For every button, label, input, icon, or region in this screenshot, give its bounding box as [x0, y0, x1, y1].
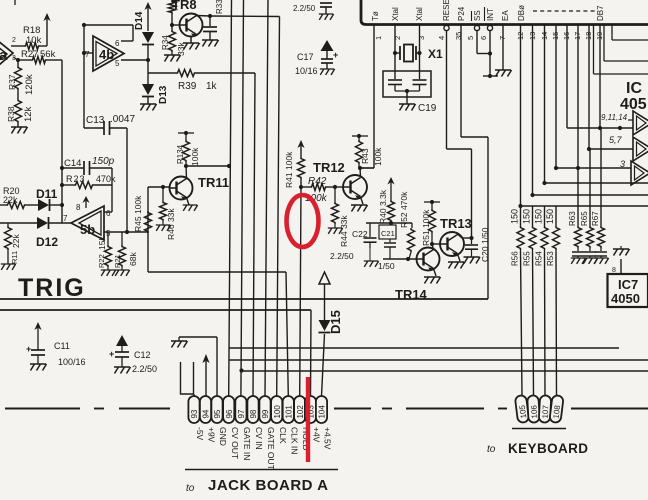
svg-text:C14: C14: [64, 158, 81, 169]
svg-text:97: 97: [237, 409, 246, 418]
svg-text:108: 108: [552, 404, 563, 419]
svg-text:.0047: .0047: [110, 114, 135, 125]
svg-text:DBø: DBø: [517, 5, 526, 21]
svg-text:C19: C19: [418, 103, 437, 114]
svg-text:6: 6: [479, 36, 488, 40]
svg-text:R56: R56: [511, 251, 520, 266]
svg-text:C21: C21: [381, 229, 395, 238]
svg-text:TR12: TR12: [313, 160, 345, 175]
svg-text:R51 100k: R51 100k: [421, 209, 431, 246]
svg-text:R45 100k: R45 100k: [133, 195, 143, 232]
svg-text:R55: R55: [523, 251, 532, 266]
svg-text:R39: R39: [178, 81, 197, 92]
svg-text:98: 98: [249, 409, 258, 418]
svg-text:150: 150: [522, 209, 532, 224]
svg-text:R53: R53: [546, 251, 555, 266]
svg-text:100k: 100k: [373, 147, 383, 166]
svg-text:C22: C22: [352, 229, 368, 239]
svg-text:102: 102: [296, 405, 305, 419]
svg-text:C20 1/50: C20 1/50: [480, 227, 490, 262]
svg-text:56k: 56k: [40, 49, 56, 60]
svg-text:D11: D11: [36, 187, 58, 201]
svg-text:7: 7: [63, 214, 68, 223]
svg-text:+4V: +4V: [312, 427, 322, 443]
svg-text:+9V: +9V: [207, 427, 217, 443]
svg-text:10/16: 10/16: [295, 66, 318, 76]
svg-text:2.2/50: 2.2/50: [132, 364, 157, 374]
svg-text:Xtal: Xtal: [391, 7, 400, 21]
svg-text:R52 470k: R52 470k: [399, 191, 409, 228]
svg-text:R42: R42: [308, 176, 327, 187]
svg-text:D14: D14: [134, 11, 145, 30]
svg-text:CLK: CLK: [278, 427, 288, 444]
svg-text:C17: C17: [297, 52, 314, 62]
svg-text:R11: R11: [10, 251, 19, 264]
svg-text:R67: R67: [591, 211, 600, 226]
svg-text:+4.5V: +4.5V: [323, 427, 333, 450]
svg-text:GND: GND: [218, 427, 228, 446]
svg-text:+: +: [109, 349, 114, 359]
svg-text:Xtal: Xtal: [415, 7, 424, 21]
svg-text:5: 5: [115, 59, 120, 68]
svg-text:1k: 1k: [206, 81, 218, 92]
svg-text:104: 104: [318, 405, 327, 419]
svg-text:4b: 4b: [99, 47, 114, 62]
svg-text:106: 106: [529, 404, 539, 418]
svg-text:-5V: -5V: [195, 427, 205, 441]
svg-text:5b: 5b: [80, 222, 95, 237]
svg-text:C11: C11: [54, 341, 70, 351]
svg-text:KEYBOARD: KEYBOARD: [508, 441, 588, 456]
svg-text:D12: D12: [36, 235, 58, 249]
svg-text:1/50: 1/50: [378, 261, 395, 271]
svg-text:100k: 100k: [190, 147, 200, 166]
svg-text:R22: R22: [97, 254, 106, 268]
svg-text:C12: C12: [134, 350, 151, 360]
svg-text:CV IN: CV IN: [254, 427, 264, 450]
svg-text:GATE OUT: GATE OUT: [266, 427, 276, 470]
svg-text:6: 6: [106, 209, 111, 218]
svg-text:22k: 22k: [11, 234, 21, 248]
svg-text:R21: R21: [113, 254, 122, 268]
svg-text:470k: 470k: [96, 174, 116, 184]
svg-text:100/16: 100/16: [58, 357, 86, 367]
svg-text:R44 33k: R44 33k: [339, 215, 349, 247]
svg-text:D15: D15: [328, 310, 343, 334]
svg-text:150p: 150p: [92, 156, 115, 167]
svg-text:R34: R34: [161, 35, 170, 50]
svg-text:150: 150: [510, 209, 520, 224]
svg-text:100: 100: [273, 405, 282, 419]
svg-text:R37: R37: [7, 74, 17, 90]
svg-text:12k: 12k: [23, 106, 34, 122]
svg-text:TR11: TR11: [198, 175, 229, 190]
svg-text:JACK BOARD A: JACK BOARD A: [208, 477, 328, 494]
svg-text:95: 95: [213, 409, 222, 418]
svg-text:8: 8: [76, 203, 81, 212]
svg-text:120k: 120k: [24, 74, 35, 95]
svg-text:8: 8: [612, 267, 616, 274]
svg-text:2.2/50: 2.2/50: [293, 4, 316, 13]
svg-text:105: 105: [518, 404, 529, 419]
svg-text:TRIG: TRIG: [18, 274, 86, 302]
svg-text:R134: R134: [176, 144, 185, 164]
svg-text:4: 4: [437, 36, 446, 40]
svg-text:2: 2: [12, 37, 16, 44]
svg-text:P24: P24: [457, 6, 466, 21]
svg-text:22k: 22k: [3, 195, 18, 205]
svg-text:10k: 10k: [26, 35, 42, 46]
svg-text:2.2/50: 2.2/50: [330, 251, 354, 261]
svg-text:99: 99: [261, 409, 270, 418]
svg-text:GATE IN: GATE IN: [242, 427, 252, 460]
svg-text:R40 3.3k: R40 3.3k: [378, 189, 388, 224]
svg-text:93: 93: [190, 409, 199, 418]
svg-text:15k: 15k: [97, 236, 107, 250]
svg-text:94: 94: [202, 409, 211, 418]
svg-text:5,7: 5,7: [609, 135, 623, 145]
svg-text:EA: EA: [501, 10, 510, 21]
svg-text:5: 5: [466, 36, 475, 40]
svg-text:150: 150: [545, 209, 555, 224]
svg-text:+: +: [26, 344, 31, 354]
svg-text:R33: R33: [215, 0, 224, 14]
svg-text:1: 1: [374, 36, 383, 40]
svg-text:7: 7: [85, 50, 90, 59]
svg-text:SS: SS: [473, 10, 482, 21]
svg-text:96: 96: [225, 409, 234, 418]
svg-text:INT: INT: [486, 8, 495, 21]
svg-text:9,11,14: 9,11,14: [601, 113, 628, 122]
svg-text:DB7: DB7: [596, 5, 605, 21]
svg-text:D13: D13: [158, 85, 169, 104]
svg-text:IC: IC: [626, 80, 642, 97]
svg-text:R46 33k: R46 33k: [166, 208, 176, 240]
svg-text:6: 6: [115, 39, 120, 48]
svg-text:X1: X1: [428, 47, 443, 61]
svg-text:Tø: Tø: [371, 11, 380, 21]
svg-text:R23: R23: [66, 174, 86, 184]
svg-text:CLK IN: CLK IN: [290, 427, 300, 454]
svg-text:R43: R43: [360, 148, 370, 164]
svg-text:3: 3: [417, 36, 426, 40]
svg-text:to: to: [186, 483, 195, 494]
svg-text:RESET: RESET: [442, 0, 451, 21]
svg-text:R27: R27: [21, 49, 38, 60]
svg-text:R38: R38: [6, 106, 16, 122]
svg-text:to: to: [487, 444, 496, 455]
svg-text:a: a: [0, 47, 8, 64]
svg-text:150: 150: [534, 209, 544, 224]
svg-text:R63: R63: [568, 211, 577, 226]
svg-text:R65: R65: [580, 211, 589, 226]
svg-text:C13: C13: [86, 115, 105, 126]
svg-text:CV OUT: CV OUT: [230, 427, 240, 459]
svg-text:101: 101: [285, 405, 294, 419]
svg-text:4050: 4050: [611, 291, 640, 306]
svg-text:R54: R54: [535, 251, 544, 266]
svg-text:R41 100k: R41 100k: [284, 151, 294, 188]
svg-text:TR13: TR13: [440, 216, 472, 231]
svg-text:IC7: IC7: [618, 277, 638, 292]
svg-text:107: 107: [541, 404, 551, 418]
svg-text:+: +: [333, 50, 338, 60]
svg-text:68k: 68k: [128, 252, 138, 266]
